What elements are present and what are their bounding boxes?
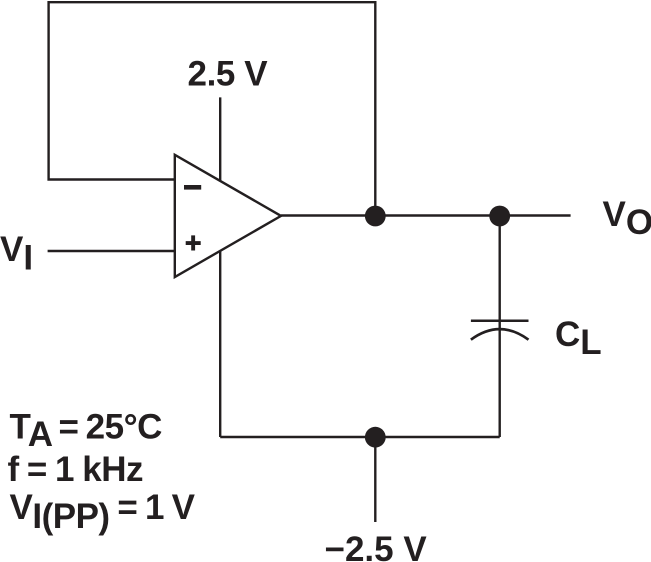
node junction dot at capacitor/output (489, 206, 510, 227)
svg-text:VO: VO (603, 195, 651, 242)
wire positive supply pin (2.5 V) (219, 97, 221, 181)
op-amp U1 (175, 155, 281, 277)
svg-text:VI: VI (0, 230, 33, 277)
svg-text:VI(PP) = 1 V: VI(PP) = 1 V (10, 488, 196, 536)
op-amp non-inverting input plus symbol (186, 235, 201, 250)
svg-text:f = 1 kHz: f = 1 kHz (8, 450, 143, 489)
capacitor CL curved bottom plate (471, 329, 529, 340)
svg-text:TA = 25°C: TA = 25°C (10, 408, 163, 455)
node junction dot on bottom rail (365, 427, 386, 448)
svg-text:CL: CL (555, 315, 602, 362)
op-amp inverting input minus symbol (184, 185, 201, 190)
wire bottom rail (220, 436, 500, 438)
wire negative supply stub (-2.5 V) (374, 437, 376, 522)
svg-text:−2.5 V: −2.5 V (325, 530, 428, 562)
svg-text:2.5 V: 2.5 V (188, 54, 269, 93)
wire non-inverting input from VI (48, 250, 175, 252)
wire feedback loop from output node to inverting input (49, 2, 376, 215)
wire capacitor branch (499, 216, 501, 438)
wire output (281, 214, 571, 216)
wire negative supply pin to bottom rail (219, 251, 221, 438)
capacitor CL top plate (471, 319, 529, 322)
node junction dot at feedback/output (365, 206, 386, 227)
